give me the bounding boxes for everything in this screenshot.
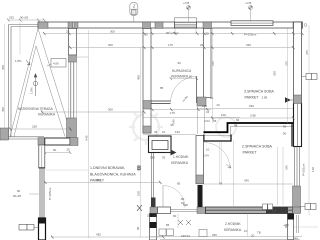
living dims [88, 30, 90, 238]
svg-text:92: 92 [181, 201, 185, 205]
svg-text:300: 300 [108, 108, 113, 112]
west living wall x44 [39, 145, 45, 168]
svg-text:1.8%: 1.8% [15, 59, 22, 63]
vertical bar above bottom wall x197 [198, 185, 203, 207]
section arrow mid [171, 150, 177, 156]
terrace slope arrow vertical [33, 74, 37, 97]
svg-text:35: 35 [162, 156, 166, 160]
hatch pier top D [203, 22, 212, 28]
svg-text:100: 100 [137, 191, 141, 196]
bed2 east bold line [291, 124, 293, 147]
right wall band [294, 22, 302, 147]
svg-text:K2: K2 [272, 209, 276, 213]
section marker top [130, 3, 138, 23]
svg-text:350: 350 [273, 71, 277, 76]
L wall terrace bottom [38, 138, 45, 145]
west wall jamb bottom [39, 218, 46, 240]
hatch pier top E corner [293, 22, 303, 28]
right wall below bottom wall [288, 214, 294, 240]
assorted tick marks on dim lines [9, 32, 304, 239]
svg-text:94: 94 [236, 118, 240, 122]
svg-text:290: 290 [249, 104, 254, 108]
bed2 west wall x196 [196, 136, 204, 184]
svg-text:KERAMIKA: KERAMIKA [224, 228, 242, 232]
svg-text:140: 140 [311, 167, 315, 172]
svg-text:+2,55: +2,55 [183, 2, 190, 5]
svg-text:90: 90 [210, 96, 214, 100]
svg-text:10: 10 [244, 229, 248, 233]
bathroom south wall [151, 101, 171, 104]
svg-text:90: 90 [17, 189, 21, 193]
svg-text:106: 106 [221, 113, 226, 117]
svg-text:85: 85 [177, 182, 181, 186]
svg-text:25: 25 [206, 32, 210, 36]
left edge dims [4, 24, 6, 139]
svg-text:175: 175 [168, 43, 173, 47]
svg-text:225: 225 [9, 16, 14, 20]
svg-text:P=105cm: P=105cm [48, 187, 52, 200]
right window P=101 [295, 147, 300, 187]
svg-text:+2,55: +2,55 [245, 2, 252, 5]
svg-text:98: 98 [234, 124, 238, 128]
right symbol box A [302, 74, 318, 80]
svg-text:TB: TB [257, 231, 261, 235]
svg-text:25: 25 [153, 214, 157, 218]
svg-text:350: 350 [1, 65, 5, 70]
svg-text:KERAMIKA: KERAMIKA [171, 75, 189, 79]
svg-text:80: 80 [189, 75, 193, 79]
dim row top terrace [8, 19, 44, 21]
hall wall ext lines [197, 106, 199, 134]
hatch pier top B [68, 22, 73, 28]
svg-text:940: 940 [85, 135, 89, 140]
bed23 dim row [211, 117, 293, 119]
svg-text:2.04: 2.04 [204, 119, 210, 123]
svg-text:2.98: 2.98 [262, 96, 268, 100]
bathroom door arc [171, 77, 197, 103]
svg-text:1.HODNIK: 1.HODNIK [173, 155, 189, 159]
left pillar [0, 128, 9, 140]
wall column terrace/living x68-76 [69, 28, 77, 55]
bathroom east wall x203 [204, 28, 212, 97]
bathroom door leaf [196, 76, 198, 103]
svg-text:228: 228 [32, 125, 37, 129]
level marker A [187, 6, 191, 22]
watermark gear center [129, 109, 236, 145]
window P=106 top [231, 21, 273, 26]
svg-text:KERAMIKA: KERAMIKA [38, 113, 56, 117]
bed3 door arrow [285, 97, 291, 102]
bottom dim strip [247, 214, 249, 237]
small circle right of corner [304, 24, 307, 27]
svg-text:435: 435 [96, 178, 101, 182]
svg-text:20: 20 [217, 103, 221, 107]
kitchen partition thin [152, 153, 154, 208]
level tag 4.06 box [51, 59, 66, 68]
svg-text:100: 100 [137, 166, 141, 171]
dark band K2 [206, 207, 293, 214]
bathroom west wall x143 [143, 28, 151, 133]
hatch pier right low [293, 186, 301, 213]
svg-text:90º+70cm: 90º+70cm [166, 31, 180, 35]
hatch pier top C [143, 22, 151, 28]
svg-text:175: 175 [170, 111, 175, 115]
dim row under L wall [39, 152, 70, 154]
niche bed2 top [204, 135, 231, 142]
svg-text:P=101cm: P=101cm [302, 163, 306, 176]
svg-text:PARKET: PARKET [245, 96, 260, 100]
svg-text:2.98: 2.98 [250, 114, 256, 118]
right symbol box B [299, 204, 316, 210]
svg-text:90+25: 90+25 [20, 16, 29, 20]
svg-text:545: 545 [172, 119, 176, 124]
svg-text:90: 90 [173, 214, 177, 218]
terrace outline left edge (double line) [9, 25, 45, 140]
bathroom dims [143, 109, 211, 111]
bottom wall hallway [150, 207, 158, 214]
svg-text:3.SPAVAĆA SOBA: 3.SPAVAĆA SOBA [244, 89, 275, 94]
hatch pier top A [38, 22, 48, 28]
mid symbol boxes bottom [263, 204, 268, 210]
svg-text:4.06: 4.06 [53, 62, 59, 66]
svg-text:65: 65 [213, 119, 217, 123]
svg-text:458: 458 [1, 107, 5, 112]
svg-text:1.8%: 1.8% [30, 87, 34, 94]
dim row y47 [69, 47, 293, 49]
svg-text:90: 90 [283, 125, 287, 129]
svg-text:NATKRIVENA TERASA: NATKRIVENA TERASA [18, 107, 53, 111]
svg-text:90+25: 90+25 [13, 194, 22, 198]
svg-text:375: 375 [305, 50, 309, 55]
terrace slope triangle A [10, 29, 72, 137]
svg-text:P=106cm: P=106cm [244, 33, 257, 37]
svg-text:90: 90 [53, 148, 57, 152]
svg-text:256: 256 [212, 233, 217, 237]
dim row y112 [41, 111, 143, 113]
kitchen dims [143, 134, 196, 136]
divider below bottom wall x150 [150, 214, 157, 240]
svg-text:BLAGOVAONICA, KUHINJA: BLAGOVAONICA, KUHINJA [90, 173, 136, 177]
level marker B [249, 6, 253, 22]
svg-text:120: 120 [175, 130, 180, 134]
dim 228 terrace bottom [10, 128, 70, 130]
svg-text:20: 20 [251, 234, 255, 238]
svg-text:290: 290 [150, 156, 155, 160]
svg-text:86: 86 [166, 223, 170, 227]
svg-text:90: 90 [178, 61, 182, 65]
svg-text:375: 375 [211, 61, 215, 66]
svg-text:25: 25 [147, 214, 151, 218]
svg-text:KERAMIKA: KERAMIKA [171, 161, 189, 165]
bottom-left switch symbol [19, 225, 27, 231]
svg-text:2.SPAVAĆA SOBA: 2.SPAVAĆA SOBA [242, 144, 273, 149]
svg-text:105: 105 [202, 104, 207, 108]
svg-text:PARKET: PARKET [243, 151, 258, 155]
svg-text:345: 345 [244, 179, 249, 183]
svg-text:375: 375 [285, 61, 289, 66]
terrace slope triangle B [14, 46, 65, 137]
svg-text:300: 300 [110, 30, 115, 34]
svg-text:80: 80 [136, 226, 140, 230]
svg-text:90: 90 [283, 132, 287, 136]
bed2 door arc [204, 143, 230, 169]
svg-text:10: 10 [162, 130, 166, 134]
svg-text:10: 10 [206, 148, 210, 152]
west window P=105 [40, 168, 44, 218]
svg-text:85: 85 [160, 86, 164, 90]
window 90x70 top (bump) [175, 18, 197, 28]
svg-text:345: 345 [285, 165, 289, 170]
svg-text:2.04: 2.04 [203, 154, 209, 158]
svg-text:235,54: 235,54 [181, 234, 190, 238]
dim row y33 [44, 33, 302, 35]
svg-text:25: 25 [67, 148, 71, 152]
stepped wall bed3/bed2 [204, 123, 294, 132]
kitchen sink fixture [149, 136, 172, 153]
svg-text:1.DNEVNI BORAVAK,: 1.DNEVNI BORAVAK, [90, 166, 125, 170]
hatch pier right mid [294, 95, 302, 104]
bed3 bottom dim row [197, 108, 293, 110]
svg-text:45: 45 [154, 130, 158, 134]
hall2 door arc [163, 186, 185, 208]
svg-text:480: 480 [137, 75, 141, 80]
svg-text:300: 300 [108, 43, 113, 47]
top wall band [38, 22, 303, 28]
right outside dims [308, 25, 310, 215]
svg-text:-245: -245 [283, 223, 289, 227]
svg-text:95: 95 [219, 182, 223, 186]
svg-text:KUPAONICA: KUPAONICA [172, 69, 192, 73]
svg-text:435: 435 [96, 233, 101, 237]
svg-text:2.HODNIK: 2.HODNIK [225, 222, 241, 226]
svg-text:330: 330 [246, 43, 251, 47]
